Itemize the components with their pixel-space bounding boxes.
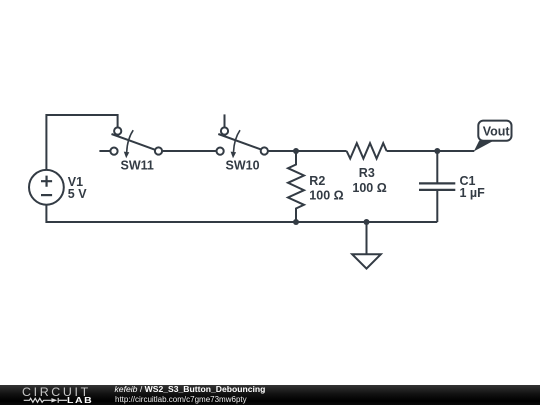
resistor R2 [288, 151, 304, 222]
switch SW10 [217, 127, 268, 158]
CircuitLab logo text [22, 387, 91, 397]
svg-text:R2: R2 [309, 174, 325, 188]
wire: V1 top to SW11 top terminal [46, 115, 117, 170]
ground [352, 254, 381, 268]
wire: ground symbol lead [366, 222, 368, 254]
resistor R3 [347, 143, 387, 158]
wire: SW10 top terminal open stub [224, 114, 226, 127]
logo LAB text [67, 398, 93, 404]
label SW11 [121, 159, 154, 173]
svg-text:SW10: SW10 [226, 159, 260, 173]
net flag Vout [474, 121, 512, 152]
node: junction ground [364, 219, 370, 225]
svg-text:100 Ω: 100 Ω [352, 181, 386, 195]
svg-text:Vout: Vout [483, 124, 511, 138]
capacitor C1 [419, 151, 455, 222]
node: junction C1 top / Vout [434, 148, 440, 154]
node: junction R2 top [293, 148, 299, 154]
wire: SW10 common to node at R2 top and R3 left [268, 150, 346, 152]
label V1 value [68, 175, 87, 201]
footer bar [0, 385, 540, 405]
svg-text:R3: R3 [359, 166, 375, 180]
switch SW11 [110, 127, 162, 158]
label R3 value [352, 166, 386, 195]
CircuitLab logo resistor-diode glyph [22, 396, 68, 405]
wire: SW11 left throw open stub [99, 150, 110, 152]
voltage source V1 [29, 170, 64, 205]
wire: R3 right to C1 node and Vout tap [387, 150, 475, 152]
footer line 2: url [115, 396, 247, 404]
svg-text:SW11: SW11 [121, 159, 154, 173]
svg-text:1 µF: 1 µF [460, 186, 486, 200]
node: junction R2 bottom [293, 219, 299, 225]
label C1 value [460, 174, 486, 200]
label R2 value [309, 174, 343, 203]
label SW10 [226, 159, 260, 173]
svg-text:5 V: 5 V [68, 187, 87, 201]
wire: bottom ground net from V1 to C1 [46, 205, 437, 222]
svg-text:100 Ω: 100 Ω [309, 188, 343, 202]
wire: SW11 common to SW10 left throw [163, 150, 216, 152]
footer line 1: user / title [115, 385, 266, 394]
